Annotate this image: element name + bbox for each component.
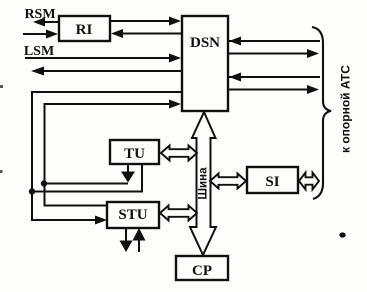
edge tick 1 (0, 85, 3, 88)
wire DSN output left with left arrowhead (31, 67, 182, 76)
svg-text:RI: RI (76, 22, 93, 38)
arrow TU down onto wire (121, 164, 135, 183)
arrow up into STU (133, 228, 146, 252)
double arrow SI to brace (299, 173, 319, 190)
brace to host exchange (312, 27, 331, 199)
svg-text:LSM: LSM (24, 44, 54, 59)
wire DSN right 4 with right arrowhead (228, 85, 319, 94)
arrow STU down output (120, 228, 133, 252)
wire DSN right 2 with right arrowhead (228, 49, 319, 58)
wire loop B from STU up left to DSN with right arrowhead (45, 100, 182, 206)
wire LSM to DSN with right arrowhead (25, 54, 181, 63)
block DSN (182, 16, 228, 111)
svg-text:SI: SI (265, 174, 279, 190)
artifact dot (339, 232, 345, 237)
block CP (176, 256, 228, 280)
double arrow TU to bus (161, 146, 197, 161)
wire RSM input with right arrowhead into RI (23, 30, 58, 39)
wire RI to DSN with right arrowhead (110, 17, 181, 26)
block STU (107, 202, 159, 228)
wire DSN right 1 with left arrowhead (228, 37, 320, 46)
wire DSN to RI with left arrowhead (111, 29, 182, 38)
junction node A (29, 188, 35, 194)
junction node B (41, 180, 47, 186)
double arrow bus to SI (210, 174, 246, 189)
wire DSN right 3 with left arrowhead (228, 73, 320, 82)
svg-text:CP: CP (192, 263, 212, 279)
block TU (110, 140, 159, 164)
bus vertical double arrow (190, 112, 216, 255)
svg-text:Шина: Шина (198, 167, 210, 200)
svg-text:DSN: DSN (190, 35, 220, 51)
double arrow STU to bus (160, 206, 197, 221)
wire node A to TU bottom (32, 164, 142, 192)
block SI (247, 167, 298, 193)
svg-text:к опорной АТС: к опорной АТС (339, 65, 353, 153)
svg-text:STU: STU (118, 207, 147, 223)
block RI (59, 16, 110, 41)
edge tick 2 (0, 170, 3, 173)
wire loop A from DSN down left to STU with right arrowhead (32, 92, 182, 225)
wire RSM output with left arrowhead (33, 18, 59, 27)
svg-text:TU: TU (124, 146, 145, 162)
wire node B to TU down-arrow (44, 183, 128, 185)
